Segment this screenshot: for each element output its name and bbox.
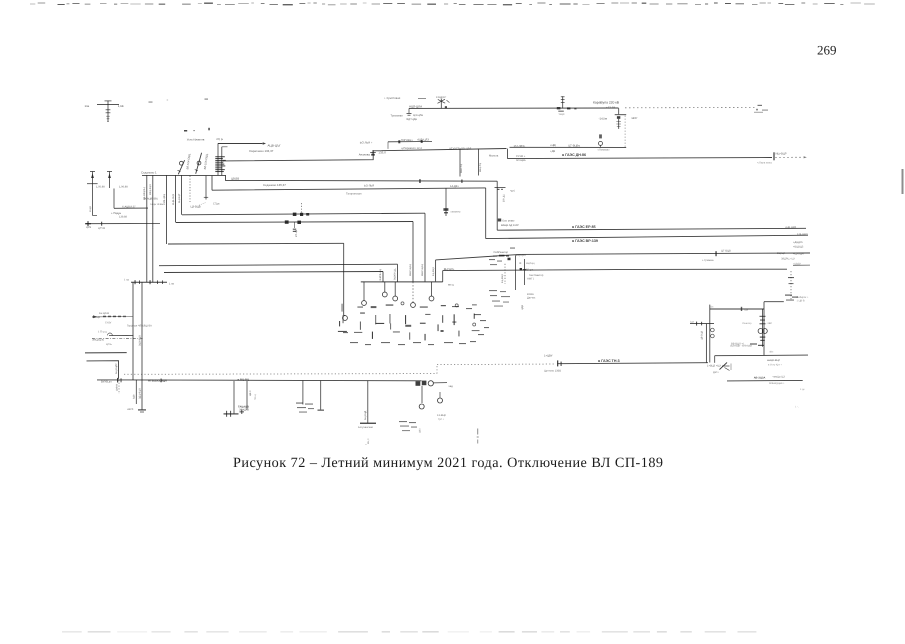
switch S1 diagonal [178,160,185,174]
node blob on L254 [508,258,511,261]
wire drop x460 [459,149,461,177]
generator G4 [393,296,398,301]
speck c [208,128,210,131]
wire dash near Хребтовая [418,97,426,99]
wire drop x320 [320,381,322,410]
node Ананова junction [370,150,376,156]
svg-text:ЗВЖДКЗ: ЗВЖДКЗ [239,409,250,412]
svg-text:в ГАЭС ВР-139: в ГАЭС ВР-139 [572,239,598,243]
wire vert x136 lower [135,380,137,404]
wire branch 335 [109,334,133,336]
svg-text:ЦУВ: ЦУВ [86,226,91,229]
svg-text:1 ЦВ-В: 1 ЦВ-В [797,300,805,303]
svg-text:ЬО-ЛЬЯ: ЬО-ЛЬЯ [364,185,374,188]
node bus tick x462 [461,180,462,183]
wire dashed vert x119 [118,380,120,394]
label ТАЦАЦВ cluster [238,405,250,411]
svg-text:ЦУВ-В: ЦУВ-В [115,384,118,391]
svg-text:Датчик: Датчик [527,296,536,299]
svg-text:4Ц-ВЦЗ: 4Ц-ВЦЗ [432,267,435,276]
node tick on L254 x716 [715,251,716,256]
svg-text:+ Падун: + Падун [111,212,122,215]
svg-text:ЗДЦ-ВЦЛ: ЗДЦ-ВЦЛ [138,388,141,399]
wire drop below breaker [421,386,423,403]
svg-text:ЗЦВ-ВЦЛ: ЗЦВ-ВЦЛ [138,335,141,346]
scan noise bottom edge [62,631,756,633]
svg-text:Усть-Илим нв: Усть-Илим нв [187,137,205,141]
junction symbol below line A [407,108,412,115]
svg-text:таЦЗ: таЦЗ [559,113,565,116]
wire dashed branch 317 [92,315,133,318]
svg-text:НТВ.ВУЗ,ВЦЛ: НТВ.ВУЗ,ВЦЛ [148,378,167,382]
generator G8 [438,392,443,403]
svg-text:ВШУ-ЦАЦ: ВШУ-ЦАЦ [409,264,412,276]
wire arrow shaft x109 [107,172,112,189]
node plus x241 [240,410,245,415]
svg-text:4Т-ЦЗ: 4Т-ЦЗ [295,229,298,237]
svg-text:1437: 1437 [631,116,638,120]
svg-text:Гор|анал ЧЕВ,ВЦУЗА: Гор|анал ЧЕВ,ВЦУЗА [127,324,152,327]
wire branch 361 with corner [87,361,119,379]
svg-text:ч.Перв пена: ч.Перв пена [757,162,772,165]
wire stub y147 [222,146,228,148]
wire drop x166.5 [166,175,168,244]
wire drop x175.5 [175,175,177,222]
svg-text:+ДЦДРк: +ДЦДРк [793,241,804,244]
wire box top [710,308,764,310]
svg-text:вв щ: вв щ [448,284,455,287]
svg-text:157-363+: 157-363+ [514,144,526,148]
svg-text:+ЦВДУ: +ЦВДУ [793,262,801,265]
node end symbol Карабула line [754,105,768,113]
node tick ТН-3 left [557,360,562,366]
svg-text:Реактор: Реактор [743,322,753,325]
svg-text:КараВула 220 кВ: КараВула 220 кВ [593,101,620,105]
scan noise top edge [30,3,875,6]
svg-text:1ла: 1ла [85,104,90,108]
node tick on ДН-86 right [773,152,774,160]
label ЦВ-ВЦВ box [191,203,207,209]
wire dashdot branch 338 [92,337,143,339]
svg-text:4ВЦ-ТЦ: 4ВЦ-ТЦ [479,163,482,172]
svg-text:НцИцщ: НцИцщ [526,262,535,265]
svg-text:+ВЦВЦЗ: +ВЦВЦЗ [793,245,804,248]
svg-text:«Помеха»: «Помеха» [598,148,611,151]
svg-text:ВШУВ-ЦЦ: ВШУВ-ЦЦ [379,269,382,280]
node box top tick [741,307,742,311]
wire drop ЕР-85 [496,181,498,230]
wire arrow shaft x92 [90,172,95,216]
wire drop L264 to bus T [397,264,399,282]
wire drop x367 Богучанская [367,381,369,423]
svg-text:хвд: хвд [449,385,454,388]
svg-text:124-ЦВЛ: 124-ЦВЛ [797,233,808,236]
cluster extra sib marks [489,248,515,266]
wire dashed x152 below [152,224,154,230]
svg-text:симметр: симметр [451,210,462,213]
wire drop x478 [478,149,480,176]
svg-text:Цуптово 13ВВ: Цуптово 13ВВ [544,370,561,373]
svg-text:з: з [365,444,368,445]
wire drop g6 [431,282,433,296]
generator G5 [411,303,416,308]
wire drop x234 [233,381,235,414]
svg-text:СИЗ-ЦЗЦ: СИЗ-ЦЗЦ [163,194,166,205]
svg-text:ЦДВ: ЦДВ [521,305,524,310]
svg-text:в ГАЭС ЕР-85: в ГАЭС ЕР-85 [572,225,596,229]
wire stack vertical b [221,147,223,176]
node T-bar x367 [360,423,376,424]
node marks below breaker [760,337,766,342]
wire line L214 [182,213,425,215]
svg-text:ЛЭП-ВЦч: ЛЭП-ВЦч [401,139,413,142]
svg-text:ЦВ-З: ЦВ-З [249,390,252,396]
wire drop x446 breaker [443,188,448,216]
svg-text:ЦВ,ВВ: ЦВ,ВВ [231,178,239,181]
wire line D to capacitor corner [510,146,627,148]
svg-text:АЦ-ВЦТ: АЦ-ВЦТ [178,193,181,203]
wire line right 355 [715,354,808,357]
svg-text:ВЗЦ-ЗЦЗ: ВЗЦ-ЗЦЗ [149,184,152,195]
wire drop g5 dashed [412,282,414,303]
svg-text:С7дв: С7дв [213,203,220,206]
generator G6 [429,296,434,301]
svg-text:АЦ-ВЦЛУ: АЦ-ВЦЛУ [115,363,118,374]
node tick on ЕР-85 drop [495,188,506,190]
svg-text:В-ЦВ: В-ЦВ [89,206,92,212]
wire dotted lower left [124,373,437,376]
generator G2 [362,301,367,306]
speck top mid a [149,102,153,103]
cluster Тагул substation detail marks [338,302,489,345]
svg-text:1,1В: 1,1В [118,104,124,108]
wire line S1 bottom bus [97,379,422,382]
svg-text:269: 269 [817,42,837,57]
node marks below L222 [293,222,296,232]
svg-text:1.И.ЦЗ: 1.И.ЦЗ [92,316,100,319]
svg-text:Тримоная: Тримоная [391,115,404,118]
svg-text:Х.АЦВ,9,57: Х.АЦВ,9,57 [122,205,136,208]
svg-text:В Вкюр|ция +: В Вкюр|ция + [769,382,785,385]
svg-text:ГУЛУ: ГУЛУ [105,322,112,325]
generator G1 circle [343,315,348,320]
svg-text:6О-ЦВА: 6О-ЦВА [516,159,526,162]
wire drop x302 [302,381,304,405]
svg-text:АЦ8-ЦЛА: АЦ8-ЦЛА [409,105,422,109]
svg-text:4ЦВ-ЦЛЗ: 4ЦВ-ЦЛЗ [417,139,429,142]
wire corner L269 to bus T [442,271,444,282]
wire drop x152.8 [152,175,154,282]
svg-text:1ЗЗ,П: 1ЗЗ,П [378,150,386,154]
svg-text:13-ВЦК: 13-ВЦК [437,414,446,417]
svg-text:Богучанская: Богучанская [358,426,374,429]
node T-bar x142 bottom [138,409,146,412]
svg-text:ЬО ЛЬЯ +: ЬО ЛЬЯ + [360,141,373,145]
svg-text:ЦЗ-ЦЛа: ЦЗ-ЦЛа [413,114,423,117]
wire dotted mid [437,363,556,366]
svg-text:1 -..: 1 -.. [795,406,799,409]
svg-text:СУ1М +: СУ1М + [516,155,526,158]
svg-text:=: = [167,98,169,102]
node blob on L269 [520,268,522,271]
wire vert x142 [141,282,143,409]
wire line L269 [443,269,787,270]
svg-text:ВЦ-З: ВЦ-З [367,438,370,444]
svg-text:1 на: 1 на [124,279,129,282]
arc symbol small [108,333,113,335]
svg-text:1дн: 1дн [690,320,695,323]
svg-text:4Ц-ВЦЗ: 4Ц-ВЦЗ [501,274,504,283]
svg-text:СДВцрв: СДВцрв [524,268,534,271]
wire drop L271 to bus T [382,272,384,282]
svg-text:в ВЦ-ВЦ: в ВЦ-ВЦ [238,377,251,381]
svg-text:1,05,98: 1,05,98 [96,186,105,189]
cluster labels x302 [296,403,314,413]
bus T Тагул [361,281,443,283]
wire line L271 [164,272,383,273]
wire bus Карабула 220кВ [409,107,619,109]
svg-text:ВЦ=ЦЛ+: ВЦ=ЦЛ+ [444,268,455,271]
svg-text:Ананова: Ананова [359,152,371,156]
svg-text:+ЦВ|: +ЦВ| [550,144,556,147]
node ticks x791 [785,277,798,301]
svg-text:+ЦУЛЦЯ: +ЦУЛЦЯ [793,253,804,256]
wire drop to ДН-86 [507,149,509,159]
svg-text:1+ЦВУ: 1+ЦВУ [544,355,553,358]
wire line L188 [212,188,486,190]
transformer T1 top-left [85,101,124,122]
svg-text:ВАЦВ-5Д 510Р: ВАЦВ-5Д 510Р [501,224,519,227]
wire line L243 [168,242,344,245]
svg-text:ЦЗ-ВЦВ: ЦЗ-ВЦВ [191,206,201,209]
svg-text:ТВ-Ц: ТВ-Ц [254,394,257,400]
svg-text:АВ-ЗЦЗА: АВ-ЗЦЗА [754,376,766,379]
wire vert x133 [132,282,134,380]
svg-text:139,88: 139,88 [119,215,127,218]
svg-text:Наратаево 133,37: Наратаево 133,37 [249,149,274,153]
svg-text:+12.18: +12.18 [606,105,615,109]
arrow end АЦВ-ЦЪГ [263,142,266,145]
node symbol ТН-3 end [720,363,732,371]
svg-text:+ Хребтовая: + Хребтовая [384,96,401,100]
wire stub E left [387,142,389,149]
svg-text:Рисунок 72 – Летний минимум 20: Рисунок 72 – Летний минимум 2021 года. О… [233,455,663,471]
node S1 ticks [117,378,162,383]
svg-text:Ж.АЦВУЗВ|: Ж.АЦВУЗВ| [144,198,158,201]
wire drop x181.5 [181,175,183,214]
svg-text:+ЦВ-ЦВЗ: +ЦВ-ЦВЗ [785,226,797,229]
bus sub left [131,280,167,284]
svg-text:1 П у щ: 1 П у щ [98,330,107,333]
wire line в ГАЭС ТН-3 [558,363,709,364]
speck top mid b [205,99,209,100]
node circle on line D [599,134,603,147]
wire box right drop [763,302,765,356]
breaker cluster S1 end [416,381,448,386]
cluster labels below СибРеактор [489,290,510,307]
svg-text:ЦВЗ: ЦВЗ [419,428,422,433]
wire drop g2 [363,282,365,301]
svg-text:1яЦм ЧЕВм: 1яЦм ЧЕВм [150,203,163,206]
svg-text:ЦЛ Ь: ЦЛ Ь [106,343,112,346]
svg-text:в Усть-Кут +: в Усть-Кут + [768,364,783,367]
svg-text:+ВУЗ: +ВУЗ [127,408,134,411]
wire ДН-86 faint end [775,156,803,158]
bus small left of box [690,320,714,325]
wire drop x515 [514,255,516,290]
svg-text:Датч: Датч [713,371,719,374]
arrow ДН-86 end [804,156,807,158]
wire dotted riser [436,365,438,374]
svg-text:в ГАЭС ТН-3: в ГАЭС ТН-3 [598,359,620,363]
svg-text:ВШУ-ЦАЦ: ВШУ-ЦАЦ [421,264,424,276]
wire line в ГАЭС ДН-86 [508,158,773,159]
svg-text:14-Дйч: 14-Дйч [450,185,459,188]
svg-text:1м ЦЗ-В: 1м ЦЗ-В [99,312,109,315]
node bus tick x420 [419,179,421,183]
wire h301 [764,301,784,303]
svg-text:-1ВР: -1ВР [767,322,773,325]
svg-text:в ГАЭС ДН-86: в ГАЭС ДН-86 [562,153,586,157]
svg-text:чемЦы ЦЗ: чемЦы ЦЗ [773,376,786,379]
speck a [184,130,187,132]
node blobs on L214 [293,213,309,216]
wire dashed drop x190 [189,176,191,202]
wire drop x247 [246,381,248,410]
svg-text:ЗВДРЦ +ЦУ: ЗВДРЦ +ЦУ [781,258,795,261]
wire line L254 [436,253,810,260]
svg-text:+ДВ: +ДВ [550,150,555,153]
wire dashed drop to line D [624,116,626,148]
svg-text:НМТ |: НМТ | [527,278,534,281]
svg-text:1 пв: 1 пв [169,283,175,286]
cluster below S1 right [399,421,417,431]
wire L224 [86,223,160,225]
wire dashed up x301 [301,203,303,214]
svg-text:ВЦ-ЦА: ВЦ-ЦА [777,252,785,255]
svg-text:АЦВ-ЦЪГ: АЦВ-ЦЪГ [268,143,282,147]
transformer T2 on Карабула line [436,96,450,109]
svg-text:тр2 +: тр2 + [438,418,445,421]
wire segment E upper [388,141,432,143]
wire stack vertical a [217,144,219,176]
wire Карабула dashed continuation [625,107,757,109]
svg-text:АЦ-ВЦД: АЦ-ВЦД [364,410,367,420]
svg-text:ВШУВ-ЦЦ: ВШУВ-ЦЦ [394,269,397,280]
svg-text:ВДВ: ВДВ [133,394,136,399]
svg-text:Бат. реакт: Бат. реакт [503,219,516,222]
svg-text:20( |н: 20( |н [216,138,223,141]
wire branch 353 [85,352,127,354]
wire drop L254 to bus T [435,260,437,282]
svg-text:ЗМЦЗЦ ж|: ЗМЦЗЦ ж| [92,338,104,341]
wire drop x146.8 [146,175,148,282]
svg-text:+ Гримма: + Гримма [702,259,714,262]
bus H Седаново [142,175,497,181]
svg-text:ц-Переволо 12,4: ц-Переволо 12,4 [401,147,422,150]
svg-text:ЗЦВ-ВДВ - ВЛВ-ВДВ: ЗЦВ-ВДВ - ВЛВ-ВДВ [730,345,752,348]
breaker Q1 on Карабула line [557,96,577,116]
wire line в ГАЭС ВР-139 [486,235,808,238]
svg-text:ВД=ЦДа: ВД=ЦДа [407,118,418,121]
wire corner x92 bottom [93,215,98,217]
svg-text:ЦВ-ВЦЗ: ЦВ-ВЦЗ [701,330,704,340]
wire L208 [114,207,148,209]
svg-text:ЦТ-ВЦВм: ЦТ-ВЦВм [568,144,580,147]
node chain ticks top [760,316,766,325]
svg-text:ВВ-ВЗЦЗЦ: ВВ-ВЗЦЗЦ [143,187,146,200]
svg-text:4ВВ-ТЦ: 4ВВ-ТЦ [460,164,463,173]
wire dashed drop x791 [790,271,792,301]
wire box left drop a [705,324,707,363]
wire line L264 [159,264,398,266]
breaker circles box [711,328,715,338]
wire drop L214 to bus T [424,213,426,281]
svg-text:СибРеактор: СибРеактор [494,251,509,254]
wire drop L243 down [343,243,345,315]
svg-text:1,06,98: 1,06,98 [119,186,128,189]
label rotated above caption b [477,429,479,444]
node bottom bus x234 [224,411,239,417]
wire breaker chain x762 [762,309,764,347]
wire drop x206 with plus [204,176,208,200]
wire drop x505 dashed [504,264,506,284]
wire vert x114 to L208 [113,189,115,209]
svg-text:ИЦ=ВЦР: ИЦ=ВЦР [776,153,787,156]
svg-text:Сибирск +: Сибирск + [797,296,809,299]
wire line to arrow АЦВ-ЦЪГ [218,143,263,145]
wire drop x524 reactor [523,259,527,285]
wire line right 380 [727,379,803,382]
wire drop g3 [384,282,386,292]
node tick E2 [421,140,423,143]
svg-text:чдт|: чдт| [510,189,515,192]
svg-text:Седаново 1: Седаново 1 [141,170,157,174]
node blobs on L222 [285,220,301,224]
label stack ЛЭП list [215,156,226,172]
svg-text:ЦТУМ: ЦТУМ [98,227,105,230]
svg-text:ВЦВ-ЗЦЗ: ВЦВ-ЗЦЗ [172,194,175,205]
node cross left end [85,221,102,226]
node НШУ marks [499,255,509,257]
wire box left drop b [709,305,711,363]
svg-text:ВУУВ дч: ВУУВ дч [101,380,112,383]
svg-text:ЦТ-ВЦВ: ЦТ-ВЦВ [721,250,731,253]
node М mark [498,219,501,222]
generator G3 [382,292,387,297]
breaker circles right cluster [758,329,767,334]
svg-text:Мальта: Мальта [489,155,499,158]
node tick between arrows [87,183,98,185]
svg-text:1+ВЦЗ +ЦУ: 1+ВЦЗ +ЦУ [707,364,721,367]
svg-text:Тагиринская: Тагиринская [346,192,362,195]
wire corner to right line [714,356,716,363]
wire line C Седаново-Ананова [223,149,507,161]
svg-text:ВЦ-ЦЗЛ: ВЦ-ЦЗЛ [516,254,526,257]
generator G7 [419,404,424,409]
capacitor C1 chain [599,108,638,129]
wire drop ВР-139 [485,188,487,239]
node x320 bottom [318,410,325,411]
wire drop x212 to L188 [211,176,213,190]
svg-text:Седаново 135,37: Седаново 135,37 [263,183,286,187]
switch S2 diagonal [195,153,202,174]
svg-text:амЦВ-ВЦЛ: амЦВ-ВЦЛ [767,359,780,362]
wire line в ГАЭС ЕР-85 [497,228,806,230]
wire line L222 [176,222,413,223]
svg-text:1ЗЦ4|1Р: 1ЗЦ4|1Р [436,96,446,99]
wire drop g4 [394,282,396,296]
